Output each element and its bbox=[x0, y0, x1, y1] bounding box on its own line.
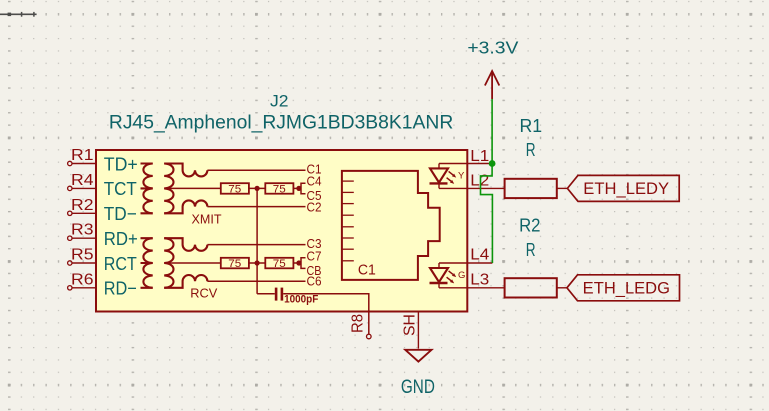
choke coil to C2 bbox=[164, 200, 207, 213]
transformer XMIT secondary winding bbox=[164, 164, 173, 214]
RJ45 jack outline bbox=[342, 171, 440, 280]
svg-text:R5: R5 bbox=[71, 247, 94, 264]
svg-text:TD−: TD− bbox=[104, 203, 137, 224]
svg-text:R8: R8 bbox=[350, 314, 367, 333]
pin R6 (RD-) bbox=[68, 286, 96, 290]
pin L2 bbox=[467, 187, 504, 189]
svg-text:G: G bbox=[458, 270, 465, 281]
svg-text:ETH_LEDY: ETH_LEDY bbox=[583, 180, 669, 198]
junction C7/CB bbox=[296, 260, 301, 265]
pin SH bbox=[417, 312, 419, 349]
choke coil to C1 bbox=[164, 164, 207, 177]
svg-text:R2: R2 bbox=[519, 215, 540, 235]
bracket to C7/CB bbox=[301, 258, 306, 269]
power +3.3V bbox=[485, 71, 499, 99]
wire TCT row bbox=[164, 187, 221, 189]
wire to C1 bbox=[207, 169, 305, 171]
svg-text:C7: C7 bbox=[307, 249, 322, 264]
wire to capacitor bbox=[257, 293, 275, 295]
junction L1 bbox=[489, 160, 496, 167]
pin R5 (RCT) bbox=[68, 261, 96, 265]
svg-text:R1: R1 bbox=[71, 147, 94, 164]
svg-text:J2: J2 bbox=[270, 92, 289, 111]
LED G (green) bbox=[430, 263, 468, 288]
transformer RCV secondary winding bbox=[164, 238, 173, 288]
capacitor 1000pF bbox=[275, 288, 283, 301]
svg-text:Y: Y bbox=[458, 170, 465, 181]
pin R1 (TD+) bbox=[68, 161, 96, 165]
svg-text:R2: R2 bbox=[71, 197, 94, 214]
wire (top-left fragment) bbox=[0, 12, 37, 17]
svg-text:SH: SH bbox=[402, 314, 419, 336]
svg-text:R: R bbox=[526, 240, 536, 260]
resistor 75 (upper right) bbox=[265, 183, 293, 194]
bracket to C4/C5 bbox=[301, 183, 306, 194]
svg-text:R3: R3 bbox=[71, 222, 94, 239]
svg-text:L4: L4 bbox=[470, 247, 489, 264]
choke coil to C6 bbox=[164, 275, 207, 288]
svg-text:75: 75 bbox=[273, 183, 286, 195]
pin R4 (TCT) bbox=[68, 186, 96, 190]
svg-text:XMIT: XMIT bbox=[192, 211, 222, 226]
resistor R1 bbox=[505, 179, 557, 198]
pin L3 bbox=[467, 287, 504, 289]
wire to C3 bbox=[207, 244, 305, 246]
LED Y (yellow) bbox=[430, 164, 468, 189]
resistor R2 bbox=[505, 278, 557, 297]
resistor 75 (lower right) bbox=[265, 258, 293, 269]
svg-text:L3: L3 bbox=[470, 271, 489, 288]
global label ETH_LEDG bbox=[567, 275, 680, 301]
pin L4 bbox=[467, 262, 492, 264]
svg-text:75: 75 bbox=[228, 258, 241, 270]
resistor 75 (upper left) bbox=[221, 183, 249, 194]
svg-text:C1: C1 bbox=[358, 262, 376, 279]
pin R8 (unconnected) bbox=[367, 334, 372, 339]
global label ETH_LEDY bbox=[567, 175, 679, 201]
LED G arrows bbox=[447, 271, 457, 284]
junction (TCT bus) bbox=[255, 186, 260, 191]
connector J2 body bbox=[96, 150, 467, 312]
wire to C6 bbox=[207, 280, 305, 282]
svg-text:C2: C2 bbox=[307, 200, 322, 215]
jack contact ticks bbox=[342, 181, 354, 261]
svg-text:R: R bbox=[526, 140, 536, 160]
wire L1 to L4 (jog) bbox=[481, 164, 493, 264]
svg-text:RCT: RCT bbox=[104, 253, 137, 274]
svg-text:L1: L1 bbox=[470, 148, 489, 165]
junction (RCT bus) bbox=[255, 260, 260, 265]
junction C4/C5 bbox=[296, 186, 301, 191]
svg-text:TD+: TD+ bbox=[104, 153, 138, 174]
svg-text:R1: R1 bbox=[520, 116, 543, 136]
resistor 75 (lower left) bbox=[221, 258, 249, 269]
transformer RCV primary winding bbox=[141, 238, 153, 288]
LED Y arrows bbox=[447, 171, 457, 184]
transformer XMIT primary winding bbox=[141, 164, 153, 214]
ground bbox=[405, 350, 431, 362]
pin L1 bbox=[467, 163, 492, 165]
svg-text:RJ45_Amphenol_RJMG1BD3B8K1ANR: RJ45_Amphenol_RJMG1BD3B8K1ANR bbox=[109, 113, 453, 134]
svg-text:RD+: RD+ bbox=[104, 228, 138, 249]
svg-text:R4: R4 bbox=[71, 172, 94, 189]
svg-text:75: 75 bbox=[273, 258, 286, 270]
wire RCT row bbox=[164, 262, 221, 264]
svg-text:+3.3V: +3.3V bbox=[467, 38, 518, 58]
choke coil to C3 bbox=[164, 238, 207, 251]
pin R3 (RD+) bbox=[68, 236, 96, 240]
wire bbox=[293, 187, 299, 189]
svg-text:C6: C6 bbox=[307, 274, 322, 289]
svg-text:R6: R6 bbox=[71, 271, 94, 288]
svg-text:GND: GND bbox=[401, 377, 435, 398]
svg-text:1000pF: 1000pF bbox=[284, 293, 318, 305]
svg-text:ETH_LEDG: ETH_LEDG bbox=[583, 280, 670, 298]
pin R2 (TD-) bbox=[68, 211, 96, 215]
svg-text:75: 75 bbox=[228, 183, 241, 195]
svg-text:TCT: TCT bbox=[104, 178, 137, 199]
wire capacitor to R8 pin bbox=[283, 294, 369, 335]
svg-text:C4: C4 bbox=[307, 174, 322, 189]
wire bbox=[249, 262, 265, 264]
svg-text:RD−: RD− bbox=[104, 278, 137, 299]
wire to C2 bbox=[207, 206, 305, 208]
wire bbox=[249, 187, 265, 189]
svg-text:RCV: RCV bbox=[190, 286, 217, 301]
center-tap bus wire bbox=[256, 188, 258, 293]
wire bbox=[293, 262, 299, 264]
wire +3.3V to L1 bbox=[491, 99, 493, 164]
